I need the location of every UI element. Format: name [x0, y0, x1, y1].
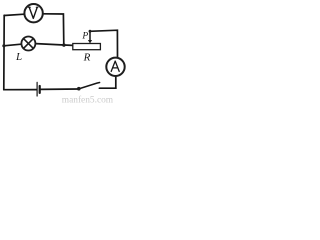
svg-text:R: R [83, 51, 91, 63]
svg-text:manfen5.com: manfen5.com [62, 95, 114, 105]
svg-text:P: P [81, 31, 88, 41]
svg-text:L: L [15, 51, 22, 63]
